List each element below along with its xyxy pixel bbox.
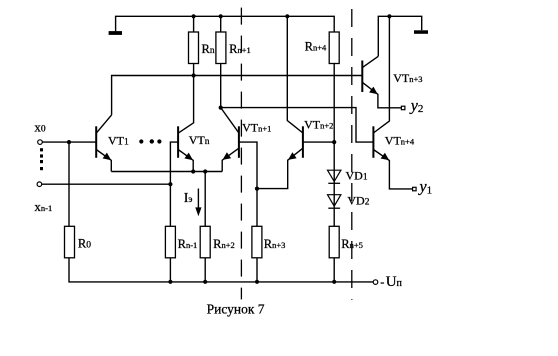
resistor Rn+2: [200, 226, 210, 257]
wire Rn+2 drop: [204, 172, 206, 227]
wire upper collector rail: [112, 76, 363, 115]
wire top rail left (GND to Rn+4): [116, 16, 335, 32]
wire Rn+1 top lead: [220, 16, 222, 32]
svg-text:VTn+3: VTn+3: [393, 71, 422, 85]
input ellipsis dots: [40, 148, 43, 170]
transistor VTn+3 (emitter follower to y2): [362, 56, 401, 108]
resistor Rn+4: [329, 32, 339, 64]
node rail / Rn+2 drop: [203, 169, 207, 173]
svg-text:Rn+4: Rn+4: [305, 39, 327, 53]
resistor Rn-1: [165, 226, 175, 257]
wire R n-1 bottom lead: [169, 258, 171, 282]
svg-text:-: -: [380, 275, 384, 289]
node upper rail / Rn / VTn collector: [192, 73, 196, 77]
node top right wire / VTn+4 collector: [387, 14, 391, 18]
wire Rn-1 top lead: [169, 184, 171, 226]
wire lower collector rail to VTn+4 base: [221, 108, 373, 143]
node rail / Rn+5: [332, 280, 336, 284]
resistor R0: [65, 226, 75, 257]
svg-text:VTn+1: VTn+1: [242, 120, 271, 134]
node xn-1 wire / VTn base / Rn-1: [168, 182, 172, 186]
node rail / Rn+2: [203, 280, 207, 284]
supply terminal -Un: [373, 280, 378, 285]
svg-text:Рисунок 7: Рисунок 7: [207, 301, 265, 316]
wire x0 to VT1 base: [42, 141, 96, 143]
wire common emitter rail: [111, 171, 222, 173]
ground right: [414, 30, 428, 34]
ground left: [109, 31, 122, 35]
node top wire / VTn+2 collector: [285, 14, 289, 18]
transistor VTn+1 (mirrored): [221, 108, 257, 227]
wire Rn+2 bottom lead: [204, 258, 206, 282]
node top wire / Rn+1: [219, 14, 223, 18]
svg-text:Rn+3: Rn+3: [264, 237, 286, 251]
svg-text:Rn-1: Rn-1: [178, 237, 198, 251]
svg-text:VD2: VD2: [347, 194, 369, 208]
node VTn+2 base / Rn+4 / diode chain: [332, 140, 336, 144]
output terminal y2: [401, 106, 405, 110]
transistor VTn+2 (mirrored, collector to ground): [257, 16, 334, 188]
wire bottom supply rail: [69, 258, 373, 282]
svg-text:xn-1: xn-1: [34, 199, 52, 214]
svg-text:R0: R0: [78, 236, 91, 250]
transistor VT1: [96, 115, 111, 172]
svg-text:y1: y1: [418, 179, 433, 197]
output terminal y1: [413, 187, 417, 191]
svg-text:VTn+4: VTn+4: [385, 134, 415, 148]
wire top rail right (VTn+3 collector to GND): [378, 16, 421, 56]
wire xn-1 to VTn base drop: [42, 183, 171, 185]
transistor VTn: [170, 76, 193, 185]
svg-text:Uп: Uп: [386, 274, 403, 290]
wire Rn+3 bottom lead: [256, 258, 258, 282]
node VTn+1 base / Rn+3 / VTn+2 emitter: [255, 187, 259, 191]
input terminal xn-1: [37, 182, 42, 187]
svg-text:Rn: Rn: [202, 42, 215, 56]
wire Rn+1 bottom lead (crosses upper wire): [220, 64, 222, 108]
svg-text:Rn+1: Rn+1: [229, 42, 251, 56]
input terminal x0: [38, 140, 43, 145]
wire Rn bottom lead: [193, 64, 195, 76]
wire Rn+4 bottom lead down to VTn+2 base node: [333, 64, 335, 143]
svg-text:y2: y2: [409, 97, 424, 115]
wire R0 drop: [68, 142, 70, 226]
svg-text:VD1: VD1: [346, 168, 368, 182]
svg-text:VTn+2: VTn+2: [304, 118, 333, 132]
ellipsis between VT1 and VTn: [139, 139, 161, 143]
diode VD1: [328, 142, 341, 226]
dashed separator line 2: [351, 9, 353, 300]
node lower rail / Rn+1 / VTn+1 collector: [219, 106, 223, 110]
wire Rn top lead: [193, 16, 195, 32]
svg-text:VTn: VTn: [189, 133, 210, 147]
node rail / VTn emitter: [191, 169, 195, 173]
resistor Rn+3: [252, 226, 262, 257]
svg-text:Rn+2: Rn+2: [213, 237, 235, 251]
svg-text:x0: x0: [34, 120, 46, 135]
svg-text:Iэ: Iэ: [184, 191, 193, 206]
dashed separator line 1: [240, 8, 242, 300]
node rail / Rn-1: [168, 280, 172, 284]
resistor Rn+1: [216, 32, 226, 64]
node x0 wire / R0: [67, 140, 71, 144]
node rail / Rn+3: [255, 280, 259, 284]
resistor Rn: [189, 32, 199, 64]
transistor VTn+4 (emitter follower to y1): [373, 16, 412, 189]
diode VD2: [328, 195, 341, 209]
resistor Rn+5: [329, 226, 339, 257]
current arrow I3: [195, 189, 201, 217]
svg-text:VT1: VT1: [108, 133, 129, 147]
node top wire / Rn: [192, 14, 196, 18]
wire Rn+5 bottom lead: [333, 258, 335, 282]
